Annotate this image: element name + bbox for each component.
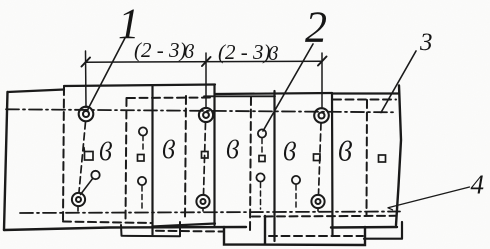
wire: balloon tail (81, 178, 93, 194)
diode D2: nail circle col2 bottom (138, 177, 146, 185)
wire: extension line left (85, 51, 88, 108)
wire: band top edge left (8, 90, 65, 93)
capacitor C6: small square col6 (379, 155, 386, 162)
diode D4: nail circle col4 bottom (256, 173, 264, 181)
wire: dashed stem between right screws (319, 123, 322, 195)
svg-text:ϐ: ϐ (268, 43, 278, 65)
wire: mid top edge solid (204, 95, 275, 97)
svg-text:ϐ: ϐ (338, 137, 352, 168)
wire: dashed bottom edge mid-left (156, 230, 223, 233)
wire: lower row piece left (121, 222, 180, 236)
svg-text:(2 - 3): (2 - 3) (218, 40, 270, 64)
wire: sheet1 dashed bottom edge (63, 222, 151, 224)
wire: dimension line (86, 61, 323, 62)
wire: band left edge (4, 92, 8, 230)
wire: sheet2 dashed left edge (126, 98, 127, 222)
transistor Q4: screw symbol bottom-mid (196, 195, 209, 208)
wire: dashed stem between left screws (79, 122, 86, 192)
svg-text:ϐ: ϐ (283, 137, 296, 166)
wire: dashed bottom lower mid (269, 235, 363, 237)
diode D1: nail circle col2 top (139, 127, 147, 135)
svg-text:ϐ: ϐ (184, 41, 194, 63)
wire: leader line of label 4 (388, 187, 470, 210)
svg-text:4: 4 (471, 170, 485, 200)
wire: band right edge (396, 86, 401, 226)
wire: nail stem (261, 139, 263, 155)
svg-text:ϐ: ϐ (162, 135, 175, 164)
node A: top axis dash-dot line (6, 109, 396, 112)
wire: square hook (83, 148, 86, 152)
wire: sheet4 dashed left edge (250, 97, 251, 231)
wire: stem below bottom screws (78, 207, 318, 212)
svg-text:ϐ: ϐ (99, 137, 112, 166)
transistor Q6: screw symbol bottom-right (311, 195, 324, 208)
wire: sheet4 top edge solid (215, 93, 332, 94)
svg-text:3: 3 (419, 29, 433, 56)
wire: nail stem dashed (295, 185, 297, 209)
wire: dashed stem between mid screws (204, 123, 206, 195)
wire: leader line of label 3 (381, 51, 416, 113)
wire: lower right piece (364, 222, 402, 239)
transistor Q3: screw symbol top-mid (199, 108, 213, 122)
wire: dimension tick middle (202, 57, 211, 66)
wire: leader line of label 2 (263, 44, 313, 131)
diode D3: nail circle col4 top (258, 129, 266, 137)
wire: nail stem dashed (260, 183, 262, 210)
wire: leader line of label 1 (88, 38, 125, 109)
diode D6: nail balloon with slanted tail (91, 171, 99, 179)
wire: nail stem (142, 136, 144, 152)
wire: sheet1 dashed left edge (63, 87, 64, 221)
transistor Q2: screw symbol bottom-left (72, 193, 85, 206)
wire: band bottom edge (4, 227, 397, 230)
capacitor C5: small square col5 (314, 154, 321, 161)
wire: extension line right (321, 53, 323, 109)
capacitor C4: small square col4 (259, 156, 265, 162)
wire: sheet5 solid left edge (273, 91, 275, 241)
wire: sheet1 solid top edge (64, 85, 215, 87)
wire: sheet2 dashed top edge (127, 97, 213, 100)
wire: sheet3 solid left edge (151, 86, 153, 227)
transistor Q1: screw symbol top-left (79, 107, 94, 122)
wire: sheet3 solid right edge (213, 85, 215, 225)
capacitor C3: small square col3 (202, 152, 209, 159)
capacitor C1: small square col1 (85, 152, 94, 161)
wire: nail stem dashed (141, 186, 143, 209)
wire: sheet3 solid bottom edge (153, 224, 216, 235)
svg-text:1: 1 (118, 1, 140, 48)
transistor Q5: screw symbol top-right (314, 108, 329, 123)
svg-text:2: 2 (305, 3, 327, 52)
wire: band top edge right (332, 92, 398, 94)
wire: sheet2 dashed right edge (185, 96, 186, 220)
wire: sheet6 dashed top edge (333, 99, 396, 101)
wire: dimension tick left (82, 58, 91, 67)
wire: sheet6 dashed edge (366, 100, 369, 215)
wire: sheet5 solid right edge (331, 93, 334, 236)
capacitor C2: small square col2 (138, 155, 145, 162)
svg-text:(2 - 3): (2 - 3) (134, 38, 186, 62)
svg-text:ϐ: ϐ (226, 135, 239, 164)
diode D5: nail circle extra mid (292, 176, 300, 184)
wire: dashed bottom edge right (252, 215, 396, 218)
wire: extension line middle (205, 53, 207, 108)
wire: lower row protruding sheet (224, 216, 365, 245)
wire: dimension tick right (318, 57, 327, 66)
node B: bottom axis dash-dot line (20, 212, 400, 214)
